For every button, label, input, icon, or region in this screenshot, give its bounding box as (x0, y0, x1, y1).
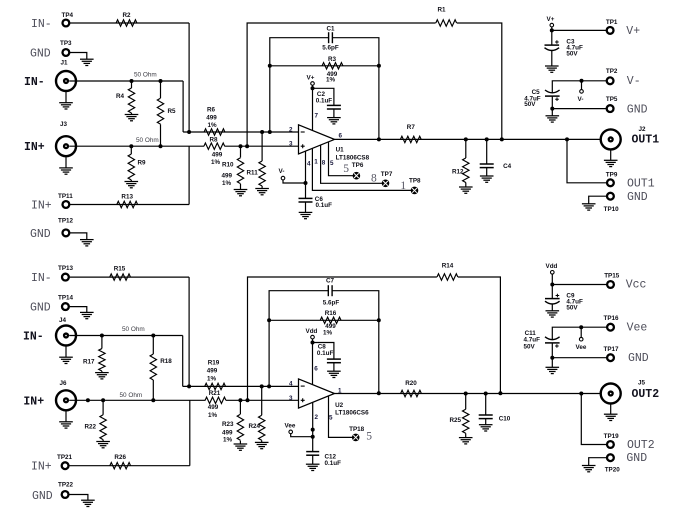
svg-text:R14: R14 (442, 263, 454, 270)
svg-text:GND: GND (627, 103, 648, 116)
svg-text:IN-: IN- (23, 330, 44, 343)
svg-text:J3: J3 (60, 121, 68, 128)
svg-text:R1: R1 (437, 6, 446, 13)
svg-text:LT1806CS8: LT1806CS8 (336, 154, 370, 161)
svg-text:R6: R6 (207, 107, 216, 114)
svg-text:499: 499 (208, 404, 219, 411)
svg-text:TP15: TP15 (604, 273, 620, 280)
svg-text:IN+: IN+ (23, 395, 44, 408)
svg-text:1%: 1% (323, 329, 333, 336)
svg-text:3: 3 (289, 395, 293, 402)
svg-text:1%: 1% (207, 375, 217, 382)
svg-text:R7: R7 (407, 124, 416, 131)
svg-text:IN-: IN- (31, 272, 52, 285)
svg-text:R25: R25 (449, 417, 461, 424)
svg-text:50V: 50V (524, 343, 536, 350)
svg-text:0.1uF: 0.1uF (317, 350, 334, 357)
svg-text:IN+: IN+ (24, 141, 45, 154)
svg-text:5: 5 (330, 160, 334, 167)
svg-text:5: 5 (343, 163, 349, 175)
svg-text:5: 5 (366, 431, 372, 443)
svg-text:OUT2: OUT2 (627, 439, 655, 452)
svg-text:Vee: Vee (576, 344, 587, 351)
svg-text:R21: R21 (209, 390, 221, 397)
svg-text:R10: R10 (222, 162, 234, 169)
svg-text:GND: GND (627, 191, 648, 204)
svg-text:2: 2 (315, 414, 319, 421)
svg-text:R16: R16 (325, 310, 337, 317)
svg-text:U2: U2 (335, 402, 344, 409)
svg-text:GND: GND (628, 352, 649, 365)
svg-text:TP17: TP17 (604, 346, 620, 353)
svg-text:50 Ohm: 50 Ohm (122, 326, 145, 333)
svg-text:R5: R5 (168, 108, 177, 115)
svg-text:R15: R15 (114, 265, 126, 272)
svg-text:R24: R24 (249, 423, 261, 430)
svg-text:R2: R2 (122, 12, 131, 19)
svg-text:OUT1: OUT1 (627, 178, 655, 191)
svg-text:J4: J4 (59, 317, 67, 324)
svg-text:GND: GND (32, 490, 53, 503)
svg-text:C10: C10 (499, 416, 511, 423)
svg-text:1%: 1% (222, 180, 232, 187)
svg-text:5.6pF: 5.6pF (322, 44, 339, 51)
svg-text:8: 8 (322, 160, 326, 167)
svg-text:499: 499 (212, 151, 223, 158)
svg-text:IN-: IN- (31, 18, 52, 31)
svg-text:TP12: TP12 (58, 217, 74, 224)
svg-text:50 Ohm: 50 Ohm (120, 392, 143, 399)
svg-text:Vee: Vee (627, 322, 648, 335)
svg-text:8: 8 (371, 172, 377, 184)
svg-text:R11: R11 (247, 169, 259, 176)
svg-text:TP18: TP18 (349, 426, 365, 433)
svg-text:R9: R9 (138, 159, 147, 166)
svg-text:4: 4 (289, 381, 293, 388)
svg-text:IN+: IN+ (31, 461, 52, 474)
svg-text:OUT1: OUT1 (632, 134, 660, 147)
svg-text:R19: R19 (208, 360, 220, 367)
svg-text:499: 499 (222, 172, 233, 179)
svg-text:J5: J5 (638, 380, 646, 387)
svg-text:C1: C1 (326, 25, 335, 32)
svg-text:TP2: TP2 (606, 68, 618, 75)
svg-text:7: 7 (315, 113, 319, 120)
svg-text:50 Ohm: 50 Ohm (136, 137, 159, 144)
svg-text:LT1806CS6: LT1806CS6 (335, 409, 369, 416)
svg-text:TP14: TP14 (58, 294, 74, 301)
svg-text:5: 5 (329, 415, 333, 422)
svg-text:0.1uF: 0.1uF (325, 460, 342, 467)
svg-text:50V: 50V (566, 305, 578, 312)
svg-text:R4: R4 (116, 93, 125, 100)
svg-text:TP3: TP3 (60, 40, 72, 47)
svg-text:TP1: TP1 (606, 19, 618, 26)
svg-text:2: 2 (289, 126, 293, 133)
svg-text:0.1uF: 0.1uF (316, 97, 333, 104)
svg-text:TP19: TP19 (604, 433, 620, 440)
svg-text:TP8: TP8 (409, 178, 421, 185)
svg-text:R18: R18 (160, 358, 172, 365)
svg-text:TP13: TP13 (58, 265, 74, 272)
svg-text:0.1uF: 0.1uF (316, 202, 333, 209)
svg-text:IN-: IN- (24, 76, 45, 89)
svg-text:C4: C4 (503, 163, 512, 170)
svg-text:IN+: IN+ (31, 199, 52, 212)
svg-text:U1: U1 (336, 147, 345, 154)
svg-text:GND: GND (30, 48, 51, 61)
svg-text:TP22: TP22 (58, 481, 74, 488)
svg-text:R13: R13 (121, 194, 133, 201)
svg-text:TP11: TP11 (58, 193, 73, 200)
svg-text:50V: 50V (524, 101, 536, 108)
svg-text:R26: R26 (114, 454, 126, 461)
svg-text:TP10: TP10 (604, 206, 620, 213)
svg-text:R22: R22 (85, 424, 97, 431)
svg-text:6: 6 (339, 133, 343, 140)
svg-text:Vee: Vee (285, 423, 296, 430)
svg-text:1: 1 (400, 180, 406, 192)
svg-text:1%: 1% (211, 159, 221, 166)
svg-text:V-: V- (279, 168, 285, 175)
svg-text:TP6: TP6 (352, 162, 364, 169)
svg-text:1%: 1% (223, 436, 233, 443)
svg-text:J1: J1 (61, 60, 69, 67)
svg-text:V-: V- (578, 96, 584, 103)
svg-text:J6: J6 (60, 380, 68, 387)
svg-text:OUT2: OUT2 (632, 388, 660, 401)
svg-text:V+: V+ (547, 16, 555, 23)
svg-text:5.6pF: 5.6pF (323, 300, 340, 307)
svg-text:R20: R20 (405, 380, 417, 387)
svg-text:499: 499 (207, 368, 218, 375)
svg-text:TP16: TP16 (604, 315, 620, 322)
svg-text:R17: R17 (83, 359, 95, 366)
svg-text:1%: 1% (326, 77, 336, 84)
svg-text:GND: GND (30, 228, 51, 241)
svg-text:1: 1 (314, 159, 318, 166)
svg-text:499: 499 (206, 115, 217, 122)
svg-text:R3: R3 (328, 56, 337, 63)
svg-text:TP7: TP7 (381, 171, 393, 178)
svg-text:Vdd: Vdd (546, 263, 558, 270)
svg-text:R23: R23 (222, 421, 234, 428)
svg-text:6: 6 (314, 366, 318, 373)
svg-text:V-: V- (627, 75, 641, 88)
svg-text:TP4: TP4 (62, 12, 74, 19)
svg-text:GND: GND (30, 302, 51, 315)
svg-text:1%: 1% (208, 412, 218, 419)
svg-text:Vcc: Vcc (626, 279, 647, 292)
svg-text:R8: R8 (209, 136, 218, 143)
svg-text:3: 3 (289, 141, 293, 148)
svg-text:V+: V+ (307, 74, 315, 81)
svg-text:1%: 1% (207, 122, 217, 129)
svg-text:C7: C7 (326, 278, 335, 285)
svg-text:GND: GND (626, 452, 647, 465)
svg-text:V+: V+ (626, 25, 640, 38)
svg-text:TP20: TP20 (605, 467, 621, 474)
svg-text:TP5: TP5 (606, 96, 618, 103)
svg-text:Vdd: Vdd (306, 328, 318, 335)
svg-text:4: 4 (307, 160, 311, 167)
svg-text:J2: J2 (639, 126, 647, 133)
svg-text:50 Ohm: 50 Ohm (134, 72, 157, 79)
svg-text:50V: 50V (566, 50, 578, 57)
svg-text:TP21: TP21 (57, 454, 73, 461)
svg-text:R12: R12 (452, 169, 464, 176)
svg-text:TP9: TP9 (606, 171, 618, 178)
